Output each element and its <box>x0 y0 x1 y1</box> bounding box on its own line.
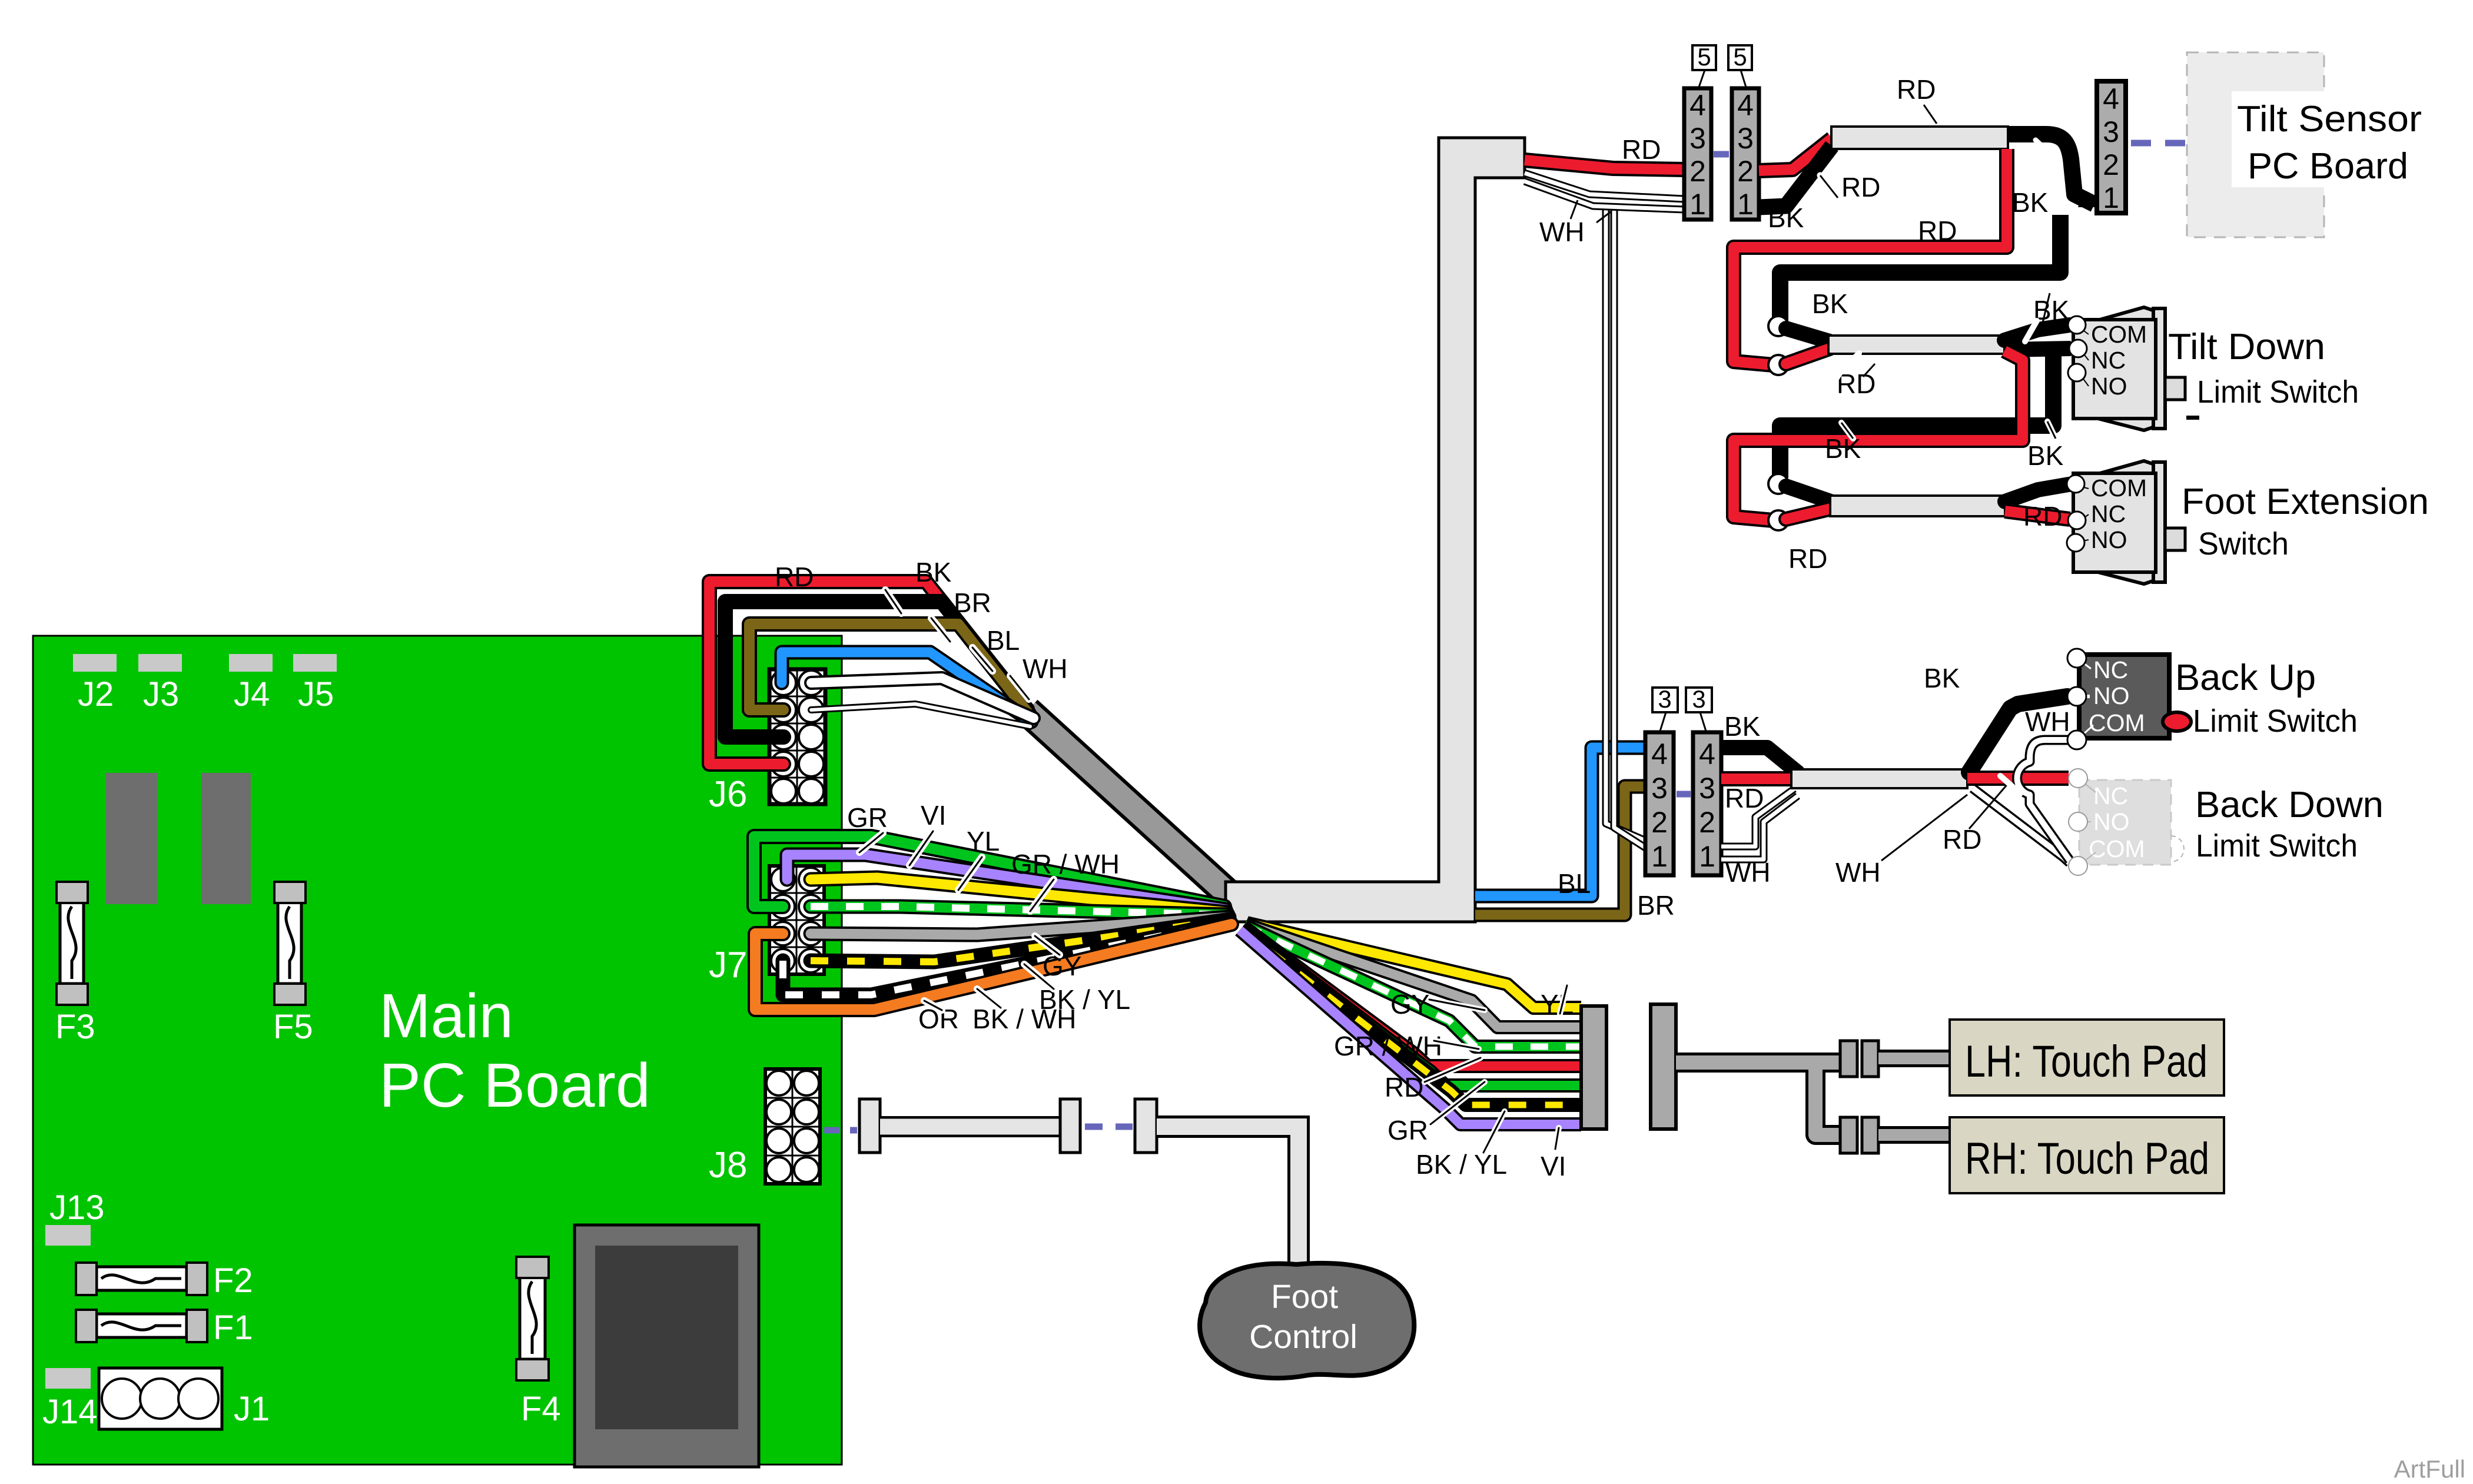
svg-text:BK / WH: BK / WH <box>972 1004 1076 1034</box>
svg-text:BK: BK <box>915 557 952 587</box>
wire BK/WH from J7 <box>783 922 1230 995</box>
Back Up limit switch <box>2067 649 2358 749</box>
wire WH from J6 <box>811 678 1034 726</box>
svg-text:RD: RD <box>1918 215 1957 246</box>
wire GR/WH from J7 <box>811 907 1228 915</box>
wire BK/YL from J7 <box>811 919 1229 962</box>
5-position connector left (4321) <box>1684 88 1711 221</box>
svg-text:2: 2 <box>1651 806 1668 839</box>
svg-text:2: 2 <box>1689 155 1706 188</box>
svg-text:NC: NC <box>2091 500 2126 527</box>
wire RD sheath2 down to foot loop <box>1734 351 2023 520</box>
svg-text:J3: J3 <box>143 675 179 713</box>
relay block 1 <box>106 773 158 904</box>
svg-text:NO: NO <box>2093 682 2130 709</box>
junction dots foot left <box>1768 474 1788 494</box>
dashes between cable bars <box>1085 1124 1133 1130</box>
"5" callout boxes <box>1692 43 1752 87</box>
Tilt Sensor PC Board <box>2187 52 2422 237</box>
svg-text:BK: BK <box>1768 202 1804 233</box>
svg-text:YL: YL <box>967 826 1000 856</box>
svg-text:Back Up: Back Up <box>2175 658 2316 698</box>
touch pad fan: wire RD <box>1243 927 1581 1066</box>
cable sheath4 <box>1791 769 1967 788</box>
connector J7 grid <box>709 866 824 985</box>
svg-text:BK: BK <box>1924 663 1960 693</box>
wire BK tilt connector down to tilt-down loop <box>1780 215 2060 323</box>
fuse F4 <box>516 1257 561 1428</box>
svg-text:4: 4 <box>2103 82 2119 115</box>
3-position connector right (4321) <box>1693 732 1721 875</box>
fan labels <box>1334 989 1574 1181</box>
connector J1 <box>99 1368 270 1429</box>
foot control cable connector bar 1 <box>859 1099 880 1153</box>
svg-text:J8: J8 <box>709 1145 747 1186</box>
svg-text:Limit Switch: Limit Switch <box>2193 703 2358 739</box>
svg-text:COM: COM <box>2089 835 2145 862</box>
svg-text:PC Board: PC Board <box>2248 146 2408 187</box>
touch pad fan: wire GY <box>1246 924 1581 1027</box>
svg-text:J7: J7 <box>709 945 747 985</box>
svg-text:5: 5 <box>1697 43 1711 71</box>
cable sheath2 <box>1828 336 2004 354</box>
cable sheath1 <box>1831 127 2008 149</box>
svg-text:RD: RD <box>1788 543 1827 574</box>
wire WH sheath4 to Back Down COM <box>1973 788 2070 863</box>
svg-text:Foot Extension: Foot Extension <box>2182 482 2429 522</box>
wire RD sheath3 to Foot Ext NC <box>2005 511 2070 519</box>
svg-text:1: 1 <box>2103 181 2119 214</box>
svg-text:VI: VI <box>1541 1151 1566 1181</box>
touch pad fan: wire BK/YL <box>1241 929 1581 1105</box>
svg-text:COM: COM <box>2089 709 2145 736</box>
svg-text:BR: BR <box>954 587 991 618</box>
svg-text:BR: BR <box>1637 890 1675 921</box>
Foot Extension switch <box>2067 461 2429 584</box>
svg-text:2: 2 <box>1737 155 1754 188</box>
J7 label leader slashes <box>859 831 1060 1010</box>
svg-text:COM: COM <box>2091 321 2147 348</box>
svg-text:Control: Control <box>1249 1318 1357 1356</box>
svg-text:BK: BK <box>1812 288 1848 319</box>
svg-text:VI: VI <box>921 800 946 831</box>
wire BK from J6 <box>725 602 1029 737</box>
svg-text:5: 5 <box>1733 43 1747 71</box>
svg-text:1: 1 <box>1737 188 1754 221</box>
pad J14 <box>42 1368 98 1431</box>
svg-text:4: 4 <box>1651 738 1668 771</box>
touch pad fan: wire VI <box>1240 930 1581 1124</box>
svg-text:BK: BK <box>2012 187 2049 218</box>
wire BK connector to sheath4 <box>1721 748 1799 773</box>
connector J6 grid <box>769 669 825 804</box>
tilt sensor connector (4321) <box>2097 81 2126 214</box>
svg-text:BK: BK <box>1724 711 1761 742</box>
svg-text:PC Board: PC Board <box>379 1051 650 1120</box>
svg-text:COM: COM <box>2091 474 2147 502</box>
cable sheath3 <box>1830 496 2005 516</box>
touch pad fan: wire YL <box>1247 923 1581 1008</box>
svg-text:RD: RD <box>1943 824 1981 855</box>
wire BR trunk to connector <box>1475 786 1645 915</box>
svg-text:GY: GY <box>1390 989 1429 1020</box>
svg-text:RD: RD <box>1725 783 1764 814</box>
transformer <box>575 1225 759 1467</box>
dashes to tilt sensor board <box>2131 140 2185 147</box>
svg-text:RD: RD <box>1841 172 1880 202</box>
pad J5 <box>293 654 337 713</box>
pad J2 <box>73 654 117 713</box>
Main PC Board title <box>379 981 650 1120</box>
svg-text:Limit Switch: Limit Switch <box>2196 828 2358 864</box>
Foot Control pedal <box>1200 1263 1414 1378</box>
wire WH pair trunk elbow to connector <box>1525 173 1684 210</box>
svg-text:GR / WH: GR / WH <box>1334 1031 1442 1061</box>
wire RD sheath1 down to tilt-down loop <box>1734 149 2007 365</box>
svg-text:WH: WH <box>1835 857 1881 888</box>
svg-text:Foot: Foot <box>1271 1278 1338 1316</box>
svg-text:RD: RD <box>1385 1072 1423 1103</box>
wire BK sheath3 to Foot Ext COM <box>2005 484 2069 502</box>
wires into sheath2 <box>1786 328 1830 341</box>
"3" callout boxes <box>1652 685 1712 731</box>
wire BK sheath1 to tilt connector (crimp) <box>2008 134 2097 207</box>
svg-text:LH: Touch Pad: LH: Touch Pad <box>1965 1037 2208 1087</box>
svg-text:3: 3 <box>1658 685 1671 713</box>
foot control cable connector bar 2 <box>1060 1099 1080 1153</box>
svg-text:NO: NO <box>2091 373 2127 400</box>
svg-text:4: 4 <box>1699 738 1715 771</box>
fuse F3 <box>55 882 95 1046</box>
svg-text:GR: GR <box>1387 1115 1428 1146</box>
svg-text:J4: J4 <box>234 675 270 713</box>
svg-text:3: 3 <box>1651 772 1668 805</box>
fuse F5 <box>273 882 313 1046</box>
svg-text:WH: WH <box>1539 217 1585 247</box>
wire WH Back Up COM hop to Back Down COM <box>2017 740 2070 861</box>
wire VI from J7 <box>787 855 1226 909</box>
svg-text:BK: BK <box>2027 440 2064 471</box>
J7 wire labels <box>847 800 1130 1034</box>
svg-text:Back Down: Back Down <box>2195 785 2384 825</box>
svg-text:J13: J13 <box>49 1188 105 1227</box>
foot control cable connector bar 3 <box>1135 1099 1157 1153</box>
foot control cable segment 2 <box>1157 1127 1299 1267</box>
wire BL from J6 <box>782 652 1031 722</box>
LH pad connector pair <box>1840 1041 1950 1077</box>
touch pad fan: wire GR/WH <box>1244 925 1581 1047</box>
svg-text:J1: J1 <box>234 1390 270 1428</box>
touch pad cable <box>1676 1063 1840 1135</box>
main light-gray harness trunk (vertical + horizontal) <box>1226 138 1525 922</box>
svg-text:2: 2 <box>1699 806 1715 839</box>
wire BK sheath2 to Tilt Down NC + drop to foot loop <box>2004 348 2071 350</box>
wire BK sheath4 to Back Up NO <box>1969 696 2067 772</box>
svg-text:4: 4 <box>1689 89 1706 122</box>
svg-text:2: 2 <box>2103 148 2119 181</box>
svg-text:F3: F3 <box>55 1008 95 1046</box>
touch pad fan: wire GR <box>1242 928 1581 1085</box>
dashes J8 to cable <box>824 1127 857 1134</box>
svg-text:RD: RD <box>1897 74 1936 105</box>
svg-text:GR / WH: GR / WH <box>1011 849 1120 879</box>
wire BK sheath2 to Tilt Down COM <box>2004 325 2070 340</box>
pad J13 <box>45 1188 105 1246</box>
svg-text:WH: WH <box>1023 653 1068 684</box>
wire BR from J6 <box>749 624 1031 717</box>
3-position connector left (4321) <box>1645 732 1674 875</box>
svg-text:BL: BL <box>1558 868 1591 899</box>
relay block 2 <box>201 773 251 904</box>
svg-text:3: 3 <box>1692 685 1705 713</box>
dash between 3-pos connectors <box>1677 791 1691 798</box>
svg-text:GR: GR <box>847 802 888 833</box>
Main PC Board <box>33 636 842 1465</box>
svg-text:Tilt Sensor: Tilt Sensor <box>2237 99 2422 140</box>
wire WH vertical pair descending to connector <box>1606 207 1647 849</box>
J6 wire labels <box>775 557 1068 684</box>
svg-text:F4: F4 <box>521 1390 561 1428</box>
5-position connector right (4321) <box>1732 88 1759 221</box>
svg-text:J2: J2 <box>78 675 114 713</box>
foot control cable segment 1 <box>880 1116 1060 1137</box>
svg-text:YL: YL <box>1541 989 1574 1020</box>
wire OR from J7 <box>755 924 1231 1010</box>
wire RD from J6 <box>709 582 1027 764</box>
svg-text:RD: RD <box>1622 134 1661 165</box>
svg-text:NO: NO <box>2093 808 2130 835</box>
svg-text:RD: RD <box>775 562 814 592</box>
wire RD connector to sheath1 <box>1759 138 1832 171</box>
svg-text:RH: Touch Pad: RH: Touch Pad <box>1965 1134 2209 1184</box>
svg-text:3: 3 <box>1689 122 1706 155</box>
wire GY from J7 <box>811 917 1229 935</box>
RH Touch Pad box <box>1950 1117 2224 1193</box>
fuse F2 <box>76 1261 253 1300</box>
svg-text:WH: WH <box>1725 857 1771 888</box>
fan label leaders <box>1425 985 1567 1153</box>
svg-text:J5: J5 <box>298 675 334 713</box>
svg-text:NC: NC <box>2091 347 2126 374</box>
Back Down limit switch (ghosted) <box>2069 769 2384 875</box>
svg-text:4: 4 <box>1737 89 1754 122</box>
svg-text:F2: F2 <box>213 1261 253 1300</box>
Tilt Down limit switch <box>2068 307 2359 430</box>
svg-text:1: 1 <box>1699 840 1715 873</box>
wires into sheath3 <box>1786 486 1831 502</box>
pad J4 <box>229 654 273 713</box>
svg-text:BL: BL <box>987 625 1020 656</box>
pad J3 <box>138 654 182 713</box>
svg-text:Main: Main <box>379 981 513 1051</box>
svg-text:1: 1 <box>1689 188 1706 221</box>
J6 label leader slashes <box>885 590 1029 699</box>
wire BL trunk to connector <box>1475 748 1645 896</box>
svg-text:BK / YL: BK / YL <box>1416 1149 1507 1180</box>
junction dots tilt-down left <box>1768 316 1788 336</box>
svg-text:Tilt Down: Tilt Down <box>2168 327 2325 367</box>
connector J8 grid <box>709 1069 820 1186</box>
wire RD sheath4 to Back Down NC <box>1967 771 2069 786</box>
svg-text:NC: NC <box>2093 656 2128 683</box>
svg-text:NC: NC <box>2093 782 2128 809</box>
wire RD connector to sheath4 <box>1721 771 1795 786</box>
svg-text:1: 1 <box>1651 840 1668 873</box>
touch pad connector bars <box>1581 1004 1676 1129</box>
svg-text:3: 3 <box>2103 115 2119 148</box>
LH Touch Pad box <box>1950 1020 2224 1095</box>
RH pad connector pair <box>1840 1117 1950 1153</box>
svg-text:WH: WH <box>2025 706 2070 737</box>
dash between 5-pos connectors <box>1714 151 1729 158</box>
svg-text:RD: RD <box>2023 501 2062 532</box>
svg-text:3: 3 <box>1699 772 1715 805</box>
svg-text:J6: J6 <box>709 774 747 815</box>
wire GR from J7 <box>754 836 1224 907</box>
wire RD trunk elbow to connector <box>1525 160 1684 170</box>
fuse F1 <box>76 1309 253 1347</box>
svg-text:Limit Switch: Limit Switch <box>2197 374 2359 410</box>
wire harness gray trunk from J6/J7 <box>1027 711 1230 896</box>
svg-text:ArtFull: ArtFull <box>2394 1455 2465 1483</box>
wire YL from J7 <box>811 878 1227 912</box>
svg-text:F5: F5 <box>273 1008 313 1046</box>
wire WH connector pin1 to sheath4 <box>1721 789 1798 859</box>
svg-text:Switch: Switch <box>2198 526 2289 562</box>
svg-text:NO: NO <box>2091 526 2127 553</box>
svg-text:F1: F1 <box>213 1309 253 1347</box>
svg-text:3: 3 <box>1737 122 1754 155</box>
svg-text:J14: J14 <box>42 1393 98 1431</box>
wire BK connector to sheath1 <box>1759 146 1832 207</box>
